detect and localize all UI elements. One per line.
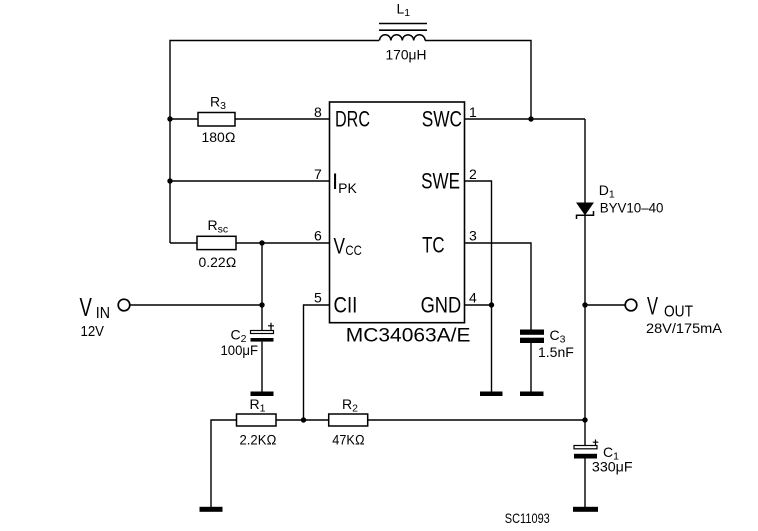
svg-text:28V/175mA: 28V/175mA xyxy=(646,320,723,336)
ground under C3 xyxy=(520,392,544,397)
svg-text:6: 6 xyxy=(314,228,322,244)
svg-text:170μH: 170μH xyxy=(386,47,427,63)
terminal VIN circle xyxy=(118,299,130,311)
resistor R2 xyxy=(329,414,368,426)
wire R1 to junction xyxy=(276,419,329,421)
svg-text:BYV10–40: BYV10–40 xyxy=(600,199,664,215)
wire right rail upper xyxy=(584,119,586,203)
wire R1 left leg xyxy=(211,420,237,507)
wire GND pin4 xyxy=(465,304,492,306)
op-amp IC U1 MC34063A/E box xyxy=(330,102,465,323)
node junction top rail and SWC xyxy=(528,116,533,121)
node junction SWE GND xyxy=(489,302,494,307)
svg-text:V: V xyxy=(647,293,658,321)
svg-text:100μF: 100μF xyxy=(221,342,259,358)
svg-text:OUT: OUT xyxy=(664,304,693,321)
wire SWE pin2 down xyxy=(465,181,492,305)
resistor Rsc xyxy=(197,236,236,249)
terminal VOUT circle xyxy=(625,299,637,311)
wire R2 to right rail xyxy=(368,419,585,421)
svg-text:47KΩ: 47KΩ xyxy=(332,432,365,448)
wire VIN row xyxy=(130,304,262,306)
svg-text:SWE: SWE xyxy=(421,169,460,194)
wire right rail mid xyxy=(584,215,586,420)
capacitor C2 polarized xyxy=(251,323,275,392)
wire top rail right segment xyxy=(425,41,531,120)
wire top rail left segment xyxy=(170,41,379,244)
svg-text:330μF: 330μF xyxy=(592,459,633,475)
node junction at left rail row1 xyxy=(167,116,172,121)
svg-text:GND: GND xyxy=(421,293,462,318)
wire SWC pin1 to right rail xyxy=(465,118,586,120)
svg-text:V: V xyxy=(80,292,93,322)
ground under pin4 xyxy=(480,392,503,397)
svg-text:1: 1 xyxy=(469,104,477,120)
ground under C2 xyxy=(251,392,274,397)
svg-text:2.2KΩ: 2.2KΩ xyxy=(240,432,277,448)
svg-text:TC: TC xyxy=(422,233,445,258)
wire Rsc row xyxy=(170,242,197,244)
diode D1 xyxy=(577,203,594,219)
node junction right rail VOUT row xyxy=(582,302,587,307)
svg-text:CC: CC xyxy=(345,242,361,258)
svg-text:5: 5 xyxy=(314,290,322,306)
svg-text:8: 8 xyxy=(314,104,322,120)
inductor L1 xyxy=(379,24,427,41)
wire GND rail down xyxy=(491,305,493,392)
ground under C1 xyxy=(573,507,598,512)
resistor R1 xyxy=(237,414,277,426)
wire R3 row xyxy=(170,118,198,120)
svg-text:IN: IN xyxy=(96,305,110,322)
node junction right rail R2 xyxy=(582,417,587,422)
svg-text:3: 3 xyxy=(469,228,477,244)
svg-text:4: 4 xyxy=(469,290,477,306)
wire TC pin3 down to C3 xyxy=(465,243,532,330)
resistor R3 xyxy=(198,113,235,127)
svg-text:CII: CII xyxy=(334,293,358,318)
svg-text:2: 2 xyxy=(469,166,477,182)
node junction R1 R2 feedback xyxy=(301,417,306,422)
svg-text:12V: 12V xyxy=(81,323,105,340)
node junction VIN C2 xyxy=(259,302,264,307)
svg-text:SC11093: SC11093 xyxy=(505,510,550,526)
svg-text:SWC: SWC xyxy=(422,107,462,132)
wire IPK row xyxy=(170,180,330,182)
svg-text:V: V xyxy=(334,234,346,259)
svg-text:1.5nF: 1.5nF xyxy=(538,344,574,360)
node junction at left rail row2 xyxy=(167,178,172,183)
svg-text:MC34063A/E: MC34063A/E xyxy=(346,326,471,347)
ground under R1 xyxy=(200,507,223,512)
capacitor C1 polarized xyxy=(574,420,598,507)
wire C2 rail upper xyxy=(261,243,263,331)
wire to VOUT terminal xyxy=(585,304,625,306)
svg-text:DRC: DRC xyxy=(335,107,370,132)
svg-text:180Ω: 180Ω xyxy=(202,129,236,145)
svg-text:7: 7 xyxy=(314,166,322,182)
node junction Rsc C2 rail xyxy=(259,240,264,245)
capacitor C3 xyxy=(520,330,544,393)
svg-text:0.22Ω: 0.22Ω xyxy=(199,254,237,270)
wire CII pin5 feedback xyxy=(304,305,330,420)
